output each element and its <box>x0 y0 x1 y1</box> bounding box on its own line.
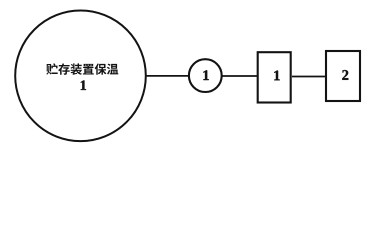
label 2 (rect 2) <box>342 70 348 80</box>
big circle: storage device node <box>15 11 146 142</box>
label 1 (small circle) <box>203 70 208 80</box>
rect 2 <box>326 51 360 101</box>
wire: big circle to small circle <box>146 75 189 77</box>
label 1 (rect 1) <box>274 71 279 81</box>
small circle node <box>189 59 222 92</box>
wire: rect 1 to rect 2 <box>292 76 326 78</box>
label 1 (big circle) <box>81 81 86 90</box>
label 贮存装置保温 <box>46 63 118 75</box>
wire: small circle to rect 1 <box>222 75 258 77</box>
rect 1 <box>258 52 291 102</box>
